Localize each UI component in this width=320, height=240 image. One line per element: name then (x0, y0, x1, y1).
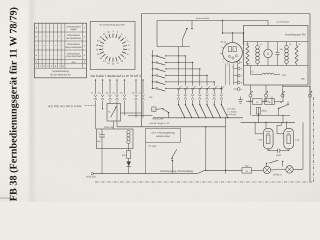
svg-text:Dr: Dr (252, 71, 255, 74)
svg-text:20kΩ: 20kΩ (262, 110, 267, 113)
svg-text:1: 1 (223, 61, 224, 64)
svg-text:ohne Abschalt.: ohne Abschalt. (66, 55, 82, 58)
svg-text:2k: 2k (299, 43, 301, 46)
svg-text:L2: L2 (289, 43, 291, 46)
svg-text:unterbrechen: unterbrechen (156, 135, 171, 138)
svg-text:zum 2pol.: zum 2pol. (227, 108, 236, 111)
svg-text:4,5V: 4,5V (152, 145, 157, 148)
svg-text:b5: b5 (120, 92, 122, 95)
svg-text:d: d (241, 81, 242, 84)
svg-text:100: 100 (280, 48, 283, 51)
svg-text:N: N (108, 111, 110, 114)
svg-text:zum Bedienger.: zum Bedienger. (276, 21, 290, 24)
svg-text:b1: b1 (91, 92, 93, 95)
svg-text:+Uq (1,2V): +Uq (1,2V) (152, 118, 163, 121)
svg-text:2: 2 (227, 64, 228, 67)
svg-text:b7: b7 (139, 92, 141, 95)
svg-text:A(1), F(6), a(1), W(11), Sch(5: A(1), F(6), a(1), W(11), Sch(5) (47, 105, 81, 108)
svg-text:mit Außerbetr.: mit Außerbetr. (66, 37, 82, 40)
svg-text:Bedienschalter: Bedienschalter (196, 17, 210, 20)
svg-text:12V: 12V (149, 96, 153, 99)
svg-text:0,1: 0,1 (246, 43, 249, 46)
svg-text:+4V: +4V (282, 74, 287, 77)
svg-text:Dr: Dr (256, 101, 259, 104)
svg-text:regler: regler (71, 28, 77, 31)
svg-text:MTKv 2: MTKv 2 (273, 174, 282, 177)
svg-text:L1: L1 (260, 43, 262, 46)
svg-text:Rö 12: Rö 12 (221, 41, 227, 44)
svg-text:für Drehrichtung gezeichn.: für Drehrichtung gezeichn. (100, 23, 126, 26)
svg-text:ohne Außerbetr.: ohne Außerbetr. (65, 46, 83, 49)
svg-text:b2: b2 (98, 92, 100, 95)
svg-text:OSW 220: OSW 220 (104, 126, 114, 129)
svg-text:13,5 V Abzweigleitung: 13,5 V Abzweigleitung (151, 132, 175, 135)
svg-text:2μF: 2μF (97, 140, 101, 143)
svg-text:B+(4,5V): B+(4,5V) (86, 176, 96, 179)
svg-text:Fernsteuerung, Rückmeldung: Fernsteuerung, Rückmeldung (160, 170, 194, 173)
svg-text:b4: b4 (113, 92, 115, 95)
svg-text:zum üb. Regler u. W.: zum üb. Regler u. W. (149, 122, 170, 125)
svg-text:b3: b3 (106, 92, 108, 95)
svg-text:und W gg.: und W gg. (227, 113, 237, 116)
svg-text:Kontaktstellung: Kontaktstellung (52, 70, 69, 73)
svg-text:Hochfrequenz-Teil: Hochfrequenz-Teil (285, 33, 306, 36)
svg-text:b6: b6 (132, 92, 134, 95)
svg-text:400: 400 (247, 63, 250, 66)
svg-text:c: c (241, 74, 242, 77)
svg-text:Die Kabel f. Bedienteil 11 W 7: Die Kabel f. Bedienteil 11 W 78 MT 2 (91, 74, 142, 78)
svg-text:3: 3 (232, 65, 233, 68)
svg-text:Aus: Aus (71, 61, 77, 64)
svg-text:u. 1 Regler: u. 1 Regler (227, 110, 237, 113)
svg-text:für die Wahl der Art: für die Wahl der Art (50, 74, 71, 77)
svg-text:FB 38 (Fernbedienungsgerät für: FB 38 (Fernbedienungsgerät für 11 W 78/7… (8, 7, 19, 201)
